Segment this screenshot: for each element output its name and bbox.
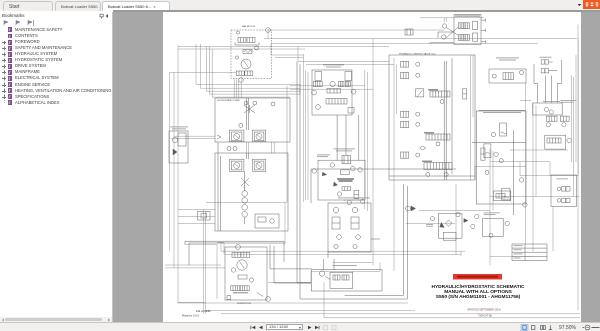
pump case node <box>271 102 275 106</box>
label strip <box>455 14 480 17</box>
check diamond M2 <box>355 234 361 240</box>
pump rotating group PL <box>229 130 244 141</box>
node G1 <box>442 24 446 28</box>
node K4 <box>494 152 498 156</box>
secondary front aux valve K enclosure <box>476 111 526 204</box>
SA arrows <box>322 172 327 176</box>
wire verticals pump left side <box>218 142 221 231</box>
tilt ports row2 <box>557 199 561 203</box>
aux spool K5 <box>494 191 511 201</box>
lift solenoid valve block G enclosure <box>454 15 481 45</box>
pump rotating group P2R <box>252 159 265 171</box>
node D1 <box>231 268 235 272</box>
red certification stamp <box>453 274 502 280</box>
brake valve V3 <box>231 286 240 291</box>
flow arrowhead right <box>464 219 468 223</box>
drawing frame left border <box>177 45 179 303</box>
node J1 <box>544 107 548 111</box>
charge relief chain node 4 <box>242 212 248 218</box>
SA feed stubs from front aux valve <box>337 115 359 160</box>
top port node <box>236 245 241 250</box>
node K2 <box>491 132 495 136</box>
charge relief chain node 3 <box>242 205 248 211</box>
front aux quick couplers QC enclosure <box>328 203 371 252</box>
node H6 <box>436 142 440 146</box>
node CF1 <box>489 233 493 237</box>
svg-text:(PRINTED SEPTEMBER 2014): (PRINTED SEPTEMBER 2014) <box>467 308 501 311</box>
case drain box <box>227 296 231 300</box>
wire riser to quick couplers <box>323 259 334 270</box>
svg-text:7304CHT (B): 7304CHT (B) <box>478 315 492 318</box>
bottom status bar <box>0 322 600 331</box>
wire harness vertical runs <box>170 72 237 251</box>
cylinder base manifold <box>533 103 563 115</box>
svg-text:HYDROSTATIC PUMP: HYDROSTATIC PUMP <box>218 99 241 102</box>
SA dark label block <box>337 178 354 179</box>
node CF2 <box>505 221 509 225</box>
bucket positioning valve L2 <box>545 135 566 149</box>
relief valve RV1 <box>243 50 252 54</box>
node H3 <box>440 100 444 104</box>
tilt spool <box>424 132 434 134</box>
charge relief chain node 2 <box>242 198 248 204</box>
coupler node M2 <box>352 207 357 212</box>
node F4 <box>316 105 321 110</box>
svg-text:S550 (S/N AHGM11001 - AHGM1175: S550 (S/N AHGM11001 - AHGM11756) <box>436 294 521 300</box>
inline check valve on feed wire <box>405 29 413 35</box>
left bookmarks panel <box>0 12 113 323</box>
SA center orifice <box>341 170 350 175</box>
tandem pump P2 enclosure <box>215 153 288 231</box>
wire verticals through control valve <box>444 58 452 180</box>
node M3 <box>334 244 338 248</box>
lift cylinder CYL1 ports row1 <box>541 60 545 64</box>
feed wires <box>430 32 454 44</box>
secondary front aux valve K label <box>479 109 525 112</box>
fan motor assembly U1 dashed enclosure <box>231 30 272 79</box>
SA node d <box>312 169 316 173</box>
flow arrow HM <box>440 223 445 228</box>
hydraulic control valve HCV enclosure <box>389 55 475 180</box>
node O1 <box>430 217 434 221</box>
solenoid spool G1 <box>458 23 463 29</box>
coupler body M2 <box>351 217 359 229</box>
port stubs <box>481 19 486 44</box>
drawing frame right border <box>577 25 579 311</box>
svg-text:FAN MOTOR: FAN MOTOR <box>242 25 255 28</box>
label oil cooler <box>426 223 433 226</box>
compactor valve E1 label <box>170 126 188 129</box>
SA node a <box>330 163 334 167</box>
node O4 <box>475 215 479 219</box>
right aux valve L label <box>543 100 560 103</box>
node N1 <box>319 271 324 276</box>
diverter arrow <box>325 276 330 280</box>
hydrostatic motor HM enclosure <box>438 214 462 239</box>
lift cylinder CYL1 label <box>540 56 552 59</box>
charge filter CF enclosure <box>483 219 504 237</box>
lift cylinder CYL1 ports row2 <box>541 69 545 73</box>
node O3 <box>471 224 475 228</box>
wire stub extensions <box>297 283 330 299</box>
node H10 <box>485 170 489 174</box>
wire mid band runs <box>311 166 475 203</box>
node K9 <box>523 203 527 207</box>
drain port node <box>235 56 238 59</box>
diverter valve DV label <box>333 264 357 267</box>
node D3 <box>266 297 271 302</box>
SA node b <box>351 166 355 170</box>
drain arrow <box>257 293 263 297</box>
gerotor cross <box>241 178 249 186</box>
tilt ports row1 <box>557 187 561 191</box>
svg-text:DRIVE MOTOR: DRIVE MOTOR <box>237 303 252 305</box>
front auxiliary control valve FA label <box>323 64 344 67</box>
lift cylinder CYL1 body outline <box>534 60 562 103</box>
node H8 <box>426 173 430 177</box>
svg-text:111 of 1240: 111 of 1240 <box>196 309 211 313</box>
solenoid spool G2 <box>458 35 463 41</box>
wire loops right of diverter <box>330 184 407 299</box>
wire harness horizontal runs <box>268 29 444 31</box>
document area background <box>113 12 600 323</box>
wire long verticals center-left <box>297 61 300 299</box>
relief cartridge K1 <box>500 123 507 136</box>
relief cartridge K7 <box>502 188 510 200</box>
right aux valve L spool a <box>547 116 558 121</box>
node M4 <box>353 244 357 248</box>
solenoid cartridge H1 <box>401 61 409 67</box>
pump drive shaft lines <box>245 98 249 191</box>
check diamond HM <box>445 220 452 226</box>
diverter valve DV outer enclosure <box>311 270 382 291</box>
aux spool sections <box>313 81 322 86</box>
swashplate linkage cross <box>244 105 255 113</box>
diverter valve DV body <box>330 272 353 288</box>
SA node c <box>358 168 362 172</box>
solenoid block right <box>345 72 352 81</box>
node K8 <box>519 178 523 182</box>
node C1 circle marker <box>239 78 244 83</box>
coupler node M1 <box>333 207 338 212</box>
tab bar <box>0 0 600 10</box>
secondary aux pump valve SA label <box>334 148 356 151</box>
node K6 <box>499 159 503 163</box>
aux spool <box>422 161 432 163</box>
wire runs above drive motor <box>185 241 284 265</box>
pilot port node <box>236 31 239 34</box>
check diamond <box>420 146 426 150</box>
node B1 circle marker <box>255 46 259 50</box>
front auxiliary control valve FA enclosure <box>312 70 352 115</box>
wire extension below couplers <box>328 239 380 258</box>
solenoid block left <box>315 72 322 81</box>
solenoid cartridge H7 <box>401 152 409 158</box>
fan motor M1 <box>241 59 251 69</box>
charge pump symbols <box>227 147 231 151</box>
check diamond M1 <box>336 234 342 240</box>
relief cartridge RV4 <box>481 148 485 160</box>
drive motor M2 <box>237 260 247 270</box>
node F3 <box>351 89 356 94</box>
right aux valve L spool b <box>560 116 569 121</box>
relief cartridge <box>348 108 354 114</box>
orifice block OB1 <box>255 214 279 228</box>
SA node g <box>360 199 364 203</box>
solenoid cartridge H5 <box>401 121 409 127</box>
legend table <box>512 244 547 261</box>
label brake <box>233 292 248 293</box>
node G2 <box>442 35 446 39</box>
svg-text:HYDRAULIC CONTROL VALVE, SJC: HYDRAULIC CONTROL VALVE, SJC <box>399 52 436 55</box>
relief RV2 <box>416 89 424 97</box>
SA pilot block <box>342 155 350 163</box>
SA node f <box>347 200 351 204</box>
secondary aux pump valve SA enclosure <box>318 160 365 200</box>
case drain arrows <box>217 135 221 139</box>
label bucket cylinder <box>561 99 577 102</box>
suction strainer arrow <box>406 206 411 211</box>
junction box JB1 <box>198 212 211 221</box>
node A1 circle marker <box>266 28 271 33</box>
check valve CV1 <box>236 71 244 76</box>
front aux quick couplers QC label <box>338 197 370 200</box>
node F1 <box>330 81 335 86</box>
compactor valve E1 <box>169 131 188 163</box>
solenoid cartridge H2 <box>401 72 409 78</box>
pump rotating group PR <box>252 130 265 141</box>
charge filter CF label <box>484 212 500 215</box>
manifold nest <box>443 232 456 240</box>
node circle <box>239 124 243 128</box>
node H9 <box>444 173 448 177</box>
flushing orifice <box>238 275 247 279</box>
svg-text:Printed in U.S.A.: Printed in U.S.A. <box>182 315 200 318</box>
back pressure valve BP label <box>496 57 519 60</box>
node O2 <box>456 213 460 217</box>
lift spool <box>428 89 438 91</box>
wire runs through aux valve K <box>472 130 526 215</box>
SA spool <box>342 187 350 191</box>
node J2 <box>549 110 553 114</box>
orange dealer button <box>583 0 600 9</box>
node D2 <box>249 278 253 282</box>
tilt cylinder CYL2 enclosure <box>551 175 576 207</box>
pilot spool <box>327 89 341 94</box>
main aux spool <box>326 99 347 105</box>
charge relief chain node 1 <box>242 191 248 197</box>
hydrostatic pump P1 enclosure <box>215 98 290 142</box>
pump rotating group P2L <box>229 159 244 171</box>
servo cylinder ports <box>244 101 248 105</box>
fan control valve V1 <box>238 38 246 43</box>
drawing frame bottom border <box>178 303 415 311</box>
coupler body M1 <box>332 217 340 229</box>
drive motor M2 enclosure <box>225 247 267 300</box>
node F2 <box>312 90 317 95</box>
back pressure valve BP enclosure <box>489 69 526 83</box>
wire bottom center loop runs <box>270 245 311 283</box>
SA node e <box>337 192 341 196</box>
check valve K3 <box>484 144 491 158</box>
PDF page <box>163 12 581 323</box>
solenoid cartridge H4 <box>401 111 409 117</box>
tilt cylinder CYL2 label <box>557 178 569 181</box>
shuttle valve V2 <box>232 252 241 257</box>
relief cartridge RV3 <box>463 89 467 99</box>
SA relief vertical <box>354 190 359 198</box>
